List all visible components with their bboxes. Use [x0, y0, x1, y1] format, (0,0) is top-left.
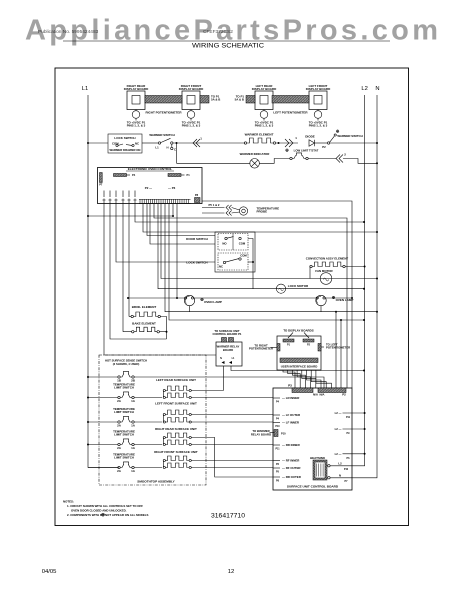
svg-text:BOARD: BOARD: [223, 348, 233, 352]
label right front surface unit: [154, 450, 198, 454]
svg-text:LIMIT SWITCH: LIMIT SWITCH: [114, 432, 134, 436]
warmer relay board U6: [212, 329, 242, 366]
wire WRB feed: [104, 204, 216, 355]
svg-text:SMOOTHTOP ASSEMBLY: SMOOTHTOP ASSEMBLY: [137, 480, 175, 484]
wire convection rail: [161, 204, 378, 280]
svg-text:P4: P4: [132, 173, 136, 177]
svg-text:P11: P11: [275, 447, 280, 450]
SUCB output P7: [339, 473, 348, 483]
wire element 2 inner to SUCB: [191, 421, 273, 423]
wire L1 bus: [88, 95, 119, 468]
wire lock feed: [116, 204, 215, 262]
svg-text:PINS 1, 2, & 3: PINS 1, 2, & 3: [127, 123, 146, 127]
potentiometer P4: [309, 110, 328, 128]
wire limit switch 2 to element: [134, 421, 162, 423]
label temperature limit switch 4: [113, 452, 135, 459]
connector J1: [193, 137, 202, 148]
footer date: [42, 569, 57, 575]
svg-text:SURFACE UNIT CONTROL BOARD: SURFACE UNIT CONTROL BOARD: [287, 485, 339, 489]
label bake element: [132, 322, 156, 326]
svg-text:DISPLAY BOARD: DISPLAY BOARD: [252, 87, 277, 91]
wire diode to warmer switch 2: [315, 143, 328, 149]
display board U4: [306, 84, 331, 110]
wire rail 222: [135, 204, 365, 223]
svg-text:P2: P2: [322, 145, 326, 149]
temperature probe RT1: [232, 207, 280, 216]
svg-text:— LR INNER: — LR INNER: [282, 396, 300, 400]
svg-text:L1: L1: [82, 86, 88, 92]
svg-text:— RF OUTER: — RF OUTER: [282, 466, 301, 470]
electronic oven control U5: [98, 167, 203, 203]
wire lock switch to warmer switch: [142, 142, 158, 144]
surface element R5: [163, 386, 191, 399]
svg-text:DOOR SWITCH: DOOR SWITCH: [186, 237, 208, 241]
wire SUCB feed A: [154, 204, 347, 388]
warmer element R1: [244, 133, 275, 145]
svg-text:RIGHT REAR SURFACE UNIT: RIGHT REAR SURFACE UNIT: [155, 427, 197, 431]
node L1 label: [82, 86, 88, 92]
surface unit control board U8: [273, 384, 352, 491]
ribbon cable right pair: [145, 96, 182, 104]
svg-text:P2 —: P2 —: [145, 186, 152, 190]
convection element R2: [310, 262, 366, 279]
svg-text:LOW LIMIT T'STAT: LOW LIMIT T'STAT: [294, 149, 319, 153]
svg-text:— RR OUTER: — RR OUTER: [282, 475, 302, 479]
svg-text:FAN MOTOR: FAN MOTOR: [315, 269, 333, 273]
svg-text:LEFT FRONT SURFACE UNIT: LEFT FRONT SURFACE UNIT: [155, 402, 197, 406]
SUCB heatsink: [310, 456, 330, 480]
svg-text:ELECTRONIC OVEN CONTROL: ELECTRONIC OVEN CONTROL: [128, 167, 173, 171]
wire limit switch 3 to element: [134, 444, 162, 446]
temperature limit switch S10: [117, 439, 136, 450]
part number 316417710: [211, 513, 245, 520]
wire N bus: [330, 95, 377, 478]
wire SUCB feed B: [172, 204, 174, 216]
footer page number: [228, 569, 235, 575]
svg-text:RIGHT FRONT SURFACE UNIT: RIGHT FRONT SURFACE UNIT: [154, 450, 198, 454]
svg-text:BAKE ELEMENT: BAKE ELEMENT: [132, 322, 156, 326]
svg-text:PINS 1, 2, & 3: PINS 1, 2, & 3: [309, 123, 328, 127]
user interface board U7: [277, 329, 321, 371]
SUCB output P10b: [338, 461, 348, 471]
wire limit switch 4 to element: [134, 467, 162, 469]
label temperature limit switch 3: [113, 429, 135, 436]
connector J4: [226, 205, 232, 210]
ribbon stub right-front board: [200, 95, 220, 104]
wire rail 232: [143, 204, 378, 233]
svg-text:P11: P11: [346, 416, 351, 419]
svg-text:PINS 1, 2, & 3: PINS 1, 2, & 3: [182, 123, 201, 127]
node N label: [375, 86, 379, 92]
smoothtop assembly enclosure: [99, 355, 206, 485]
wire L1 to sense switch: [87, 376, 118, 378]
wire door feed 2: [150, 204, 215, 244]
svg-text:OVEN LAMP: OVEN LAMP: [204, 300, 222, 304]
warmer indicator lamp DS1: [250, 159, 260, 169]
hot surface sense switch S7: [117, 371, 136, 382]
svg-text:— LF INNER: — LF INNER: [282, 421, 300, 425]
wire warmer branch down: [176, 143, 178, 163]
wire element 3 outer to SUCB: [191, 438, 273, 478]
wire warmer indicator line: [177, 162, 251, 164]
svg-text:POTENTIOMETER: POTENTIOMETER: [249, 347, 273, 351]
connector J2: [336, 153, 346, 163]
wire lamp top rail: [127, 297, 185, 299]
svg-text:COM: COM: [239, 242, 246, 246]
svg-text:— RF INNER: — RF INNER: [282, 459, 300, 463]
wire L1 to limit switch 2: [87, 421, 118, 423]
wire rail L1 to EOC: [87, 215, 174, 217]
temperature limit switch S11: [117, 462, 136, 473]
potentiometer P3: [255, 110, 274, 128]
svg-text:— LF OUTER: — LF OUTER: [282, 413, 301, 417]
wire bake return: [110, 204, 167, 339]
wire probe line 2: [202, 212, 225, 214]
display board U3: [252, 84, 277, 110]
border frame: [55, 68, 409, 526]
connector J3: [285, 136, 297, 147]
label right rear surface unit: [155, 427, 197, 431]
svg-text:— RR INNER: — RR INNER: [282, 443, 301, 447]
wire broil feed: [128, 204, 130, 317]
wire element 4 outer to SUCB: [191, 460, 273, 462]
svg-text:WARMER DRAWER ON: WARMER DRAWER ON: [110, 148, 141, 152]
svg-text:2. COMPONENTS WITH DO: 2. COMPONENTS WITH DO NOT APPEAR ON ALL …: [67, 513, 149, 517]
svg-text:LIMIT SWITCH: LIMIT SWITCH: [114, 410, 134, 414]
wire lock switch out: [248, 261, 254, 263]
SUCB P10 block: [274, 430, 286, 437]
convection fan motor M2: [320, 273, 332, 285]
svg-text:NC: NC: [135, 142, 139, 146]
svg-text:— P3: — P3: [168, 186, 176, 190]
wire element 3 inner to SUCB: [191, 444, 273, 446]
wire L1 to limit switch 3: [87, 444, 118, 446]
wire element 2 outer to SUCB: [191, 414, 273, 416]
wire element 1 inner to SUCB: [191, 397, 273, 399]
svg-text:LIMIT SWITCH: LIMIT SWITCH: [114, 455, 134, 459]
warmer switch S3: [327, 130, 378, 144]
notes text: [63, 500, 149, 517]
connector J5: [226, 210, 232, 215]
svg-text:NOTES:: NOTES:: [63, 500, 74, 504]
wire L1 to limit switch 4: [88, 467, 118, 469]
svg-text:USER INTERFACE BOARD: USER INTERFACE BOARD: [281, 364, 318, 368]
svg-text:LOCK SWITCH: LOCK SWITCH: [114, 136, 135, 140]
wire SUCB feed E: [335, 311, 337, 388]
svg-text:P8: P8: [195, 193, 199, 197]
label oven lamp 2: [332, 296, 353, 302]
svg-text:Publication No. 5995424483: Publication No. 5995424483: [38, 29, 99, 35]
publication number text: [38, 29, 233, 35]
svg-text:P7: P7: [99, 183, 103, 187]
wire lock motor rail: [158, 204, 365, 290]
label left front surface unit: [155, 402, 197, 406]
node L2 label: [361, 86, 367, 92]
svg-text:L2 —: L2 —: [335, 452, 342, 456]
svg-text:5A & B: 5A & B: [211, 97, 220, 101]
svg-text:12: 12: [228, 569, 235, 575]
label to right potentiometer: [249, 343, 277, 350]
svg-text:5A & B: 5A & B: [235, 97, 244, 101]
broil element R3: [129, 312, 168, 339]
wire indicator to tstat: [259, 159, 289, 164]
svg-text:HEATSINK: HEATSINK: [310, 456, 326, 460]
svg-text:RIGHT POTENTIOMETER: RIGHT POTENTIOMETER: [146, 111, 183, 115]
potentiometer P1: [127, 110, 146, 128]
label lock switch: [186, 261, 207, 265]
label fan motor: [315, 269, 333, 273]
svg-text:NC: NC: [219, 265, 223, 269]
wire lamp rail drop: [176, 204, 178, 299]
temperature limit switch S8: [117, 392, 136, 403]
svg-text:04/05: 04/05: [42, 569, 57, 575]
svg-text:DIODE: DIODE: [305, 134, 315, 138]
svg-text:COM: COM: [240, 254, 247, 258]
wire limit switch 1 to element: [134, 397, 162, 399]
label left rear surface unit: [156, 378, 196, 382]
wire tstat to N: [308, 159, 378, 165]
label oven lamp 1: [201, 298, 222, 304]
svg-text:P2: P2: [342, 393, 346, 397]
svg-text:CONVECTION ASSY ELEMENT: CONVECTION ASSY ELEMENT: [306, 256, 349, 260]
svg-text:CONTROL BOARD P1: CONTROL BOARD P1: [212, 332, 241, 336]
svg-text:OVEN LAMP: OVEN LAMP: [336, 298, 354, 302]
svg-text:L2: L2: [361, 86, 367, 92]
wire warmer switch to element: [173, 142, 245, 144]
svg-text:WARMER ELEMENT: WARMER ELEMENT: [245, 133, 274, 137]
oven lamp DS2: [184, 295, 194, 311]
wire door feed 1: [147, 204, 215, 236]
svg-text:LOCK MOTOR: LOCK MOTOR: [288, 284, 309, 288]
svg-text:LEFT POTENTIOMETER: LEFT POTENTIOMETER: [273, 111, 308, 115]
watermark AppliancePartsPros.com: [25, 15, 438, 47]
wire L2 bus: [330, 95, 365, 466]
svg-text:P5 1 & 2: P5 1 & 2: [209, 203, 220, 207]
svg-text:L1: L1: [155, 146, 159, 150]
label temperature limit switch 1: [113, 382, 135, 389]
label temperature limit switch 2: [113, 407, 135, 414]
wire lamp rail mid: [194, 297, 316, 299]
svg-text:LEFT REAR SURFACE UNIT: LEFT REAR SURFACE UNIT: [156, 378, 196, 382]
svg-text:PROBE: PROBE: [257, 210, 268, 214]
svg-text:N: N: [375, 86, 379, 92]
svg-text:P3: P3: [288, 384, 292, 388]
SUCB output P11: [335, 411, 366, 419]
svg-text:DISPLAY BOARD: DISPLAY BOARD: [306, 87, 331, 91]
svg-text:LIMIT SWITCH: LIMIT SWITCH: [114, 385, 134, 389]
svg-text:(2 SHOWN, 4 USED): (2 SHOWN, 4 USED): [113, 362, 140, 366]
label to warmer relay board: [251, 429, 274, 436]
diode D1: [305, 134, 315, 146]
wire door switch out: [248, 239, 253, 289]
SUCB output P6: [335, 452, 366, 460]
svg-text:DISPLAY BOARD: DISPLAY BOARD: [179, 87, 204, 91]
wire rail 320: [169, 204, 365, 321]
svg-text:TO DISPLAY BOARDS: TO DISPLAY BOARDS: [283, 329, 313, 333]
EOC pin comb P10: [139, 199, 191, 203]
header rule: [63, 40, 390, 42]
svg-text:WARMER SWITCH: WARMER SWITCH: [149, 133, 174, 137]
svg-text:L2: L2: [338, 461, 342, 465]
label RIGHT POTENTIOMETER: [146, 111, 183, 115]
surface element R8: [163, 456, 191, 469]
label broil element: [132, 305, 157, 309]
title WIRING SCHEMATIC: [192, 43, 265, 50]
temperature limit switch S9: [117, 416, 136, 427]
svg-text:P10: P10: [281, 432, 286, 436]
display board U2: [179, 84, 204, 110]
wire element 4 inner to SUCB: [191, 467, 273, 469]
wire probe line 1: [202, 203, 225, 208]
label warmer indicator: [240, 152, 271, 156]
door switch S5: [218, 234, 248, 251]
wire WRB pin N: [191, 366, 223, 391]
wire lamp rail end: [326, 297, 353, 299]
wire WRB pin L1: [231, 366, 365, 372]
svg-text:N: N: [339, 473, 341, 477]
label convection element: [306, 256, 349, 260]
EOC pin group P9: [102, 191, 136, 205]
svg-text:P10: P10: [275, 425, 280, 428]
wire L1 to lock switch: [87, 142, 108, 144]
svg-text:L2 —: L2 —: [335, 427, 342, 431]
svg-text:WARMER SWITCH: WARMER SWITCH: [337, 134, 362, 138]
wire rail EOC right: [202, 201, 353, 388]
svg-text:C: C: [174, 148, 176, 152]
potentiometer P2: [182, 110, 201, 128]
warmer switch S2: [149, 133, 176, 152]
ribbon cable left pair: [272, 96, 309, 104]
label door switch: [186, 237, 208, 241]
wire sense switch to SUCB: [134, 377, 324, 388]
oven lamp DS3: [316, 295, 326, 311]
ribbon stub left-rear board: [235, 95, 255, 104]
svg-text:P10: P10: [344, 468, 349, 471]
SUCB output P9: [335, 427, 366, 435]
svg-text:DISPLAY BOARD: DISPLAY BOARD: [124, 87, 149, 91]
svg-text:POTENTIOMETER: POTENTIOMETER: [326, 346, 350, 350]
wire SUCB feed F: [340, 319, 342, 388]
svg-text:H: H: [166, 146, 168, 150]
svg-text:WIRING SCHEMATIC: WIRING SCHEMATIC: [192, 43, 265, 50]
display board U1: [124, 84, 149, 110]
svg-text:RELAY BOARD: RELAY BOARD: [251, 432, 271, 436]
lock motor M1: [276, 284, 309, 293]
wire UIB to SUCB harness: [283, 370, 331, 388]
svg-text:N: N: [220, 357, 222, 360]
svg-text:PINS 1, 2, & 3: PINS 1, 2, & 3: [255, 123, 274, 127]
svg-text:L2 —: L2 —: [335, 411, 342, 415]
surface element R7: [163, 433, 191, 446]
low limit thermostat S4: [286, 149, 319, 160]
svg-text:LOCK SWITCH: LOCK SWITCH: [186, 261, 207, 265]
door-lock switch enclosure: [215, 232, 255, 272]
SUCB left pins: [273, 396, 302, 482]
svg-text:BROIL ELEMENT: BROIL ELEMENT: [132, 305, 157, 309]
wire element to diode: [276, 142, 298, 144]
svg-text:WARMER INDICATOR: WARMER INDICATOR: [240, 152, 271, 156]
label hot surface sense switch: [105, 359, 147, 366]
wire L1 to limit switch 1: [87, 397, 118, 399]
bake element R4: [123, 204, 167, 333]
surface element R6: [163, 410, 191, 423]
svg-text:OVEN DOOR CLOSED AND UNLOCKED.: OVEN DOOR CLOSED AND UNLOCKED.: [71, 508, 127, 512]
lock switch S1: [108, 134, 142, 153]
label to left potentiometer: [321, 343, 350, 350]
svg-text:P1: P1: [187, 173, 191, 177]
svg-text:CFEF372CS2: CFEF372CS2: [203, 29, 233, 35]
svg-text:316417710: 316417710: [211, 513, 245, 520]
label LEFT POTENTIOMETER: [273, 111, 308, 115]
lock switch S6: [218, 253, 248, 270]
wire lamp lower rail: [165, 204, 378, 313]
